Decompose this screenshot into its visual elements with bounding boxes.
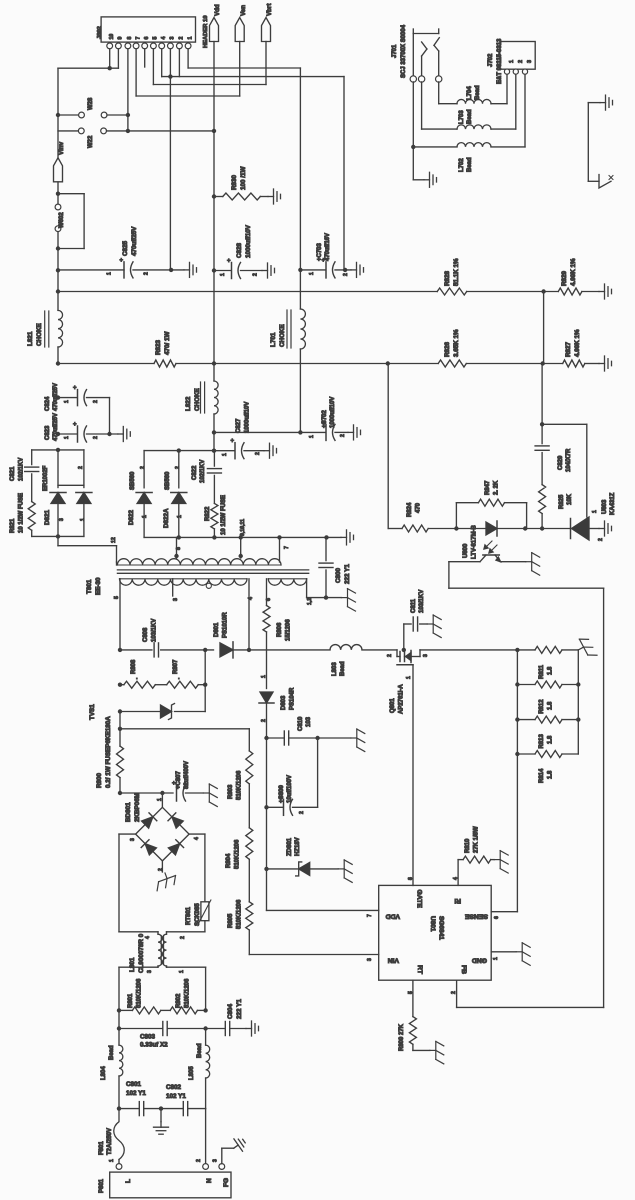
svg-text:L704: L704 (467, 86, 473, 100)
svg-text:2: 2 (180, 936, 186, 939)
svg-text:2: 2 (175, 466, 181, 469)
optocoupler U800 LTV-817M-B LED (486, 522, 497, 535)
svg-text:SB560: SB560 (130, 471, 136, 490)
svg-text:2: 2 (93, 436, 99, 439)
resistor R814 1.8 (515, 752, 519, 756)
svg-text:C811: C811 (411, 598, 417, 613)
svg-text:2. 2K: 2. 2K (494, 480, 500, 495)
svg-text:9,10,11: 9,10,11 (240, 519, 246, 536)
snubber C822 102/1KV + R822 fuse (213, 451, 215, 467)
wire pin6 stub (144, 49, 146, 67)
wire J701 ground drop (412, 147, 414, 180)
bead L704 (457, 99, 491, 103)
svg-text:Bead: Bead (109, 1045, 115, 1060)
capacitor C829 104/X7R (535, 445, 549, 447)
svg-text:1: 1 (222, 453, 228, 456)
wire J701 pin3 to L704 (438, 82, 440, 104)
svg-text:C822: C822 (192, 465, 198, 480)
svg-text:510K/1206: 510K/1206 (237, 770, 243, 800)
svg-text:R823: R823 (155, 339, 162, 355)
svg-text:1: 1 (64, 436, 70, 439)
svg-text:J702: J702 (488, 53, 494, 67)
chassis ground U801 GND (516, 943, 530, 966)
svg-text:HEADER 10: HEADER 10 (203, 15, 209, 48)
power flag Ven (235, 18, 244, 42)
svg-text:Vdd: Vdd (214, 4, 221, 16)
chassis ground bridge minus (161, 861, 163, 872)
ground C804 (246, 1021, 259, 1036)
svg-text:Ven: Ven (240, 5, 247, 16)
svg-text:103/1KV: 103/1KV (152, 619, 158, 642)
svg-text:1,2: 1,2 (307, 598, 313, 605)
resistors R808 R807 (118, 683, 122, 687)
inductor L821 CHOKE (58, 310, 63, 347)
T801 pin 3 stub (172, 579, 174, 596)
wire Vdd bus (56, 361, 60, 365)
svg-text:PS1010R: PS1010R (223, 612, 229, 638)
thermistor RT801 SCK085 (201, 902, 209, 921)
bead L804 (119, 1045, 123, 1076)
wire rail to W602 (57, 182, 59, 204)
bead L805 (205, 1029, 207, 1046)
chassis ground R809 (430, 1041, 444, 1064)
wire pin7 to Ven (135, 49, 137, 96)
svg-text:D803: D803 (281, 695, 287, 710)
T801 core (117, 569, 308, 571)
capacitor C801 102 Y1 (117, 1106, 121, 1110)
power flag Vlnv (54, 158, 63, 182)
svg-text:2: 2 (93, 400, 99, 403)
wire VDD feed (266, 869, 268, 911)
wire R824 drop (387, 364, 389, 529)
svg-text:CL900078R 0: CL900078R 0 (138, 933, 145, 973)
svg-text:T801: T801 (86, 579, 93, 594)
svg-text:470uf/25V: 470uf/25V (131, 226, 138, 256)
svg-text:VIN: VIN (388, 957, 399, 964)
svg-text:R813: R813 (539, 733, 545, 748)
svg-text:PS104R: PS104R (290, 687, 296, 710)
T801 pin 8 tap (176, 537, 178, 558)
svg-text:+: + (227, 259, 231, 265)
svg-text:Bead: Bead (475, 85, 481, 100)
wire bridge AC right to RT801 (189, 833, 205, 835)
ground for C823/C824 (118, 427, 131, 442)
svg-text:R806: R806 (277, 622, 283, 637)
svg-text:L822: L822 (185, 396, 192, 411)
ground at Vdd bus end (599, 356, 612, 371)
ground at bus end (599, 284, 612, 299)
svg-text:U801: U801 (429, 916, 436, 932)
capacitor C823 470uf/25V (56, 432, 60, 436)
svg-text:0.2/ 1W FUSEP6KE180A: 0.2/ 1W FUSEP6KE180A (105, 716, 112, 788)
wire D821 to T801 pin12 (57, 536, 59, 545)
svg-text:R804: R804 (226, 853, 232, 868)
svg-text:2: 2 (387, 654, 393, 657)
svg-text:10K: 10K (567, 493, 573, 505)
svg-text:C824: C824 (45, 396, 51, 411)
svg-text:2: 2 (196, 1159, 202, 1162)
svg-text:4.99K 1%: 4.99K 1% (574, 329, 581, 357)
svg-text:510K/1206: 510K/1206 (185, 978, 191, 1008)
wire N line (205, 1109, 207, 1164)
svg-text:4: 4 (145, 936, 151, 939)
svg-text:C804: C804 (227, 1003, 234, 1019)
svg-text:RT: RT (416, 965, 423, 975)
svg-text:1: 1 (187, 37, 193, 40)
svg-text:1: 1 (107, 272, 113, 275)
svg-text:R825: R825 (559, 494, 565, 509)
svg-text:R800: R800 (96, 772, 103, 788)
ground secondary return (341, 530, 354, 545)
svg-text:1000uf/10V: 1000uf/10V (245, 224, 252, 258)
svg-text:N: N (206, 1178, 213, 1183)
svg-text:D822A: D822A (163, 508, 170, 528)
capacitor C808 103/1KV (118, 648, 122, 652)
svg-text:3: 3 (130, 838, 136, 841)
svg-text:L803: L803 (332, 662, 338, 676)
wire FB loop (448, 562, 450, 589)
svg-text:ZD801: ZD801 (287, 837, 293, 856)
wire drain row (247, 648, 251, 652)
svg-text:D801: D801 (214, 622, 220, 637)
bridge rectifier BD801 2KBP06M (161, 793, 163, 808)
resistor R804 510K/1206 (248, 784, 250, 828)
svg-text:6: 6 (144, 37, 150, 40)
svg-text:470/ 1W: 470/ 1W (164, 331, 171, 355)
transformer T801 EE-30 secondary winding (117, 559, 281, 565)
IC U801 SG6841 (379, 885, 492, 980)
resistor R813 1.8 (515, 717, 519, 721)
svg-text:2: 2 (518, 60, 524, 63)
svg-text:1: 1 (142, 515, 148, 518)
svg-text:C825: C825 (122, 240, 129, 256)
svg-text:R821: R821 (10, 518, 16, 533)
opto light arrows (484, 541, 492, 549)
wire output bus (Vlnv) (56, 289, 60, 293)
svg-text:+: + (231, 439, 235, 445)
chassis ground opto emitter (526, 553, 540, 576)
svg-text:1: 1 (309, 272, 315, 275)
svg-text:510K/1206: 510K/1206 (137, 978, 143, 1008)
svg-text:Q801: Q801 (390, 698, 396, 713)
svg-text:8: 8 (408, 877, 414, 880)
wire J802 pin2/gnd drop (343, 77, 345, 270)
svg-text:C829: C829 (558, 455, 564, 470)
svg-text:P801: P801 (99, 1178, 105, 1193)
common mode choke L801 CL900078R0 (119, 931, 158, 933)
svg-text:EE-30: EE-30 (95, 577, 102, 595)
svg-text:1.8: 1.8 (548, 735, 554, 744)
chassis ground C810 (351, 729, 365, 752)
ground U803 (599, 521, 612, 536)
resistor R829 4.99K 1% (558, 288, 582, 295)
connector P801 (116, 1164, 122, 1170)
TVS1 transient suppressor (118, 709, 122, 713)
capacitor C807 82uf/400V (118, 791, 122, 795)
svg-text:8: 8 (127, 37, 133, 40)
diode D803 PS104R (260, 692, 273, 703)
svg-text:1: 1 (406, 676, 412, 679)
dual schottky D822/D822A SB560 (177, 448, 181, 452)
svg-text:7: 7 (135, 37, 141, 40)
svg-text:3: 3 (367, 958, 373, 961)
svg-text:5: 5 (153, 37, 159, 40)
ground for C703 (351, 262, 364, 277)
U801 pin 4 RI to R810 (457, 860, 459, 886)
svg-text:1: 1 (177, 515, 183, 518)
svg-text:82uf/400V: 82uf/400V (184, 761, 190, 789)
svg-text:KA431Z: KA431Z (610, 492, 616, 515)
svg-text:W28: W28 (88, 97, 94, 110)
svg-text:2: 2 (261, 719, 267, 722)
svg-text:SG6841: SG6841 (438, 916, 445, 940)
ground for C702 (348, 425, 361, 440)
svg-text:U800: U800 (463, 543, 469, 558)
svg-text:1: 1 (309, 435, 315, 438)
svg-text:R814: R814 (539, 768, 545, 783)
svg-text:SENSE: SENSE (464, 913, 488, 920)
wire pin1 row (187, 49, 189, 68)
wire bus link (543, 292, 545, 364)
svg-text:4: 4 (194, 837, 200, 840)
svg-text:CHOKE: CHOKE (279, 324, 286, 347)
wire pin5 to Vbrt (152, 49, 154, 85)
svg-text:SCK085: SCK085 (195, 903, 201, 926)
svg-text:470uf/25V: 470uf/25V (53, 413, 59, 441)
wire Vlnv rail top (57, 68, 59, 158)
svg-text:510K/1206: 510K/1206 (237, 899, 243, 929)
svg-text:1.8: 1.8 (548, 770, 554, 779)
svg-text:3: 3 (527, 60, 533, 63)
svg-text:SB560: SB560 (165, 471, 171, 490)
svg-text:1: 1 (220, 273, 226, 276)
svg-text:L: L (125, 1179, 132, 1183)
wire pin3 drop to gnd row (169, 49, 171, 270)
svg-text:+: + (120, 258, 124, 264)
U801 pin 5 RT / R809 27K (412, 980, 414, 1016)
svg-text:102/1KV: 102/1KV (19, 458, 25, 481)
snubber C821 102/1KV + R821 fuse (32, 449, 58, 451)
svg-text:100 /1W: 100 /1W (240, 166, 247, 190)
resistor R823 470/1W (154, 360, 176, 367)
resistor R806 15/1206 (263, 606, 270, 633)
svg-text:TVS1: TVS1 (89, 704, 96, 720)
svg-text:2: 2 (179, 37, 185, 40)
wire J701 pin1 to L702 (412, 82, 414, 147)
svg-text:5: 5 (114, 596, 120, 599)
svg-text:2: 2 (343, 273, 349, 276)
wire Vdd rail (213, 42, 215, 364)
capacitor C800 222 Y1 (325, 537, 327, 560)
svg-text:R802: R802 (176, 993, 182, 1008)
svg-text:SCJ 33700X S0004: SCJ 33700X S0004 (401, 24, 407, 78)
svg-text:2: 2 (158, 868, 164, 871)
svg-text:R824: R824 (407, 502, 413, 517)
optocoupler U800 phototransistor (483, 554, 499, 556)
svg-text:L703: L703 (459, 110, 465, 124)
wire aux return row (307, 597, 342, 599)
capacitor C828 1000uf/10V (212, 268, 216, 272)
svg-text:51.1K 1%: 51.1K 1% (453, 258, 460, 286)
wire pin2 (178, 49, 180, 77)
svg-text:1: 1 (261, 675, 267, 678)
chassis bracket near J702 (587, 103, 589, 182)
svg-text:+: + (73, 386, 77, 392)
T801 pins 9,10,11 tap (240, 537, 242, 558)
svg-text:R830: R830 (231, 174, 238, 190)
svg-text:Bead: Bead (467, 109, 473, 124)
ground for C825 (184, 262, 197, 277)
wire FG to ground (221, 1148, 223, 1163)
svg-text:510K/1206: 510K/1206 (235, 839, 241, 869)
svg-text:470uf/16V: 470uf/16V (325, 233, 331, 261)
chassis ground bank (574, 635, 597, 661)
wire L801 left to rows (118, 1010, 120, 1045)
svg-text:L804: L804 (101, 1066, 107, 1080)
wire R825/C829 branch (540, 526, 544, 530)
resistor R800 0.2/1W fuse (117, 746, 124, 778)
svg-text:C800: C800 (335, 567, 342, 583)
svg-text:2: 2 (451, 991, 457, 994)
svg-text:C823: C823 (45, 425, 51, 440)
svg-text:2KBP06M: 2KBP06M (134, 793, 141, 822)
svg-text:3: 3 (59, 518, 65, 521)
resistor R847 2.2K bypass (454, 526, 458, 530)
svg-text:2: 2 (144, 272, 150, 275)
svg-text:R826: R826 (444, 341, 451, 357)
svg-text:J802: J802 (97, 26, 103, 39)
svg-text:+: + (73, 422, 77, 428)
svg-text:R801: R801 (128, 993, 134, 1008)
svg-text:103/1KV: 103/1KV (419, 590, 425, 613)
svg-text:1.8: 1.8 (548, 666, 554, 675)
svg-text:L702: L702 (459, 158, 465, 172)
svg-text:Vbrt: Vbrt (266, 4, 273, 16)
svg-text:6: 6 (494, 916, 500, 919)
svg-text:Bead: Bead (340, 661, 346, 676)
zener ZD801 HZ18V (264, 867, 268, 871)
svg-text:222 Y1: 222 Y1 (344, 564, 351, 584)
svg-text:3: 3 (423, 654, 429, 657)
svg-text:10 1/2W FUSE: 10 1/2W FUSE (221, 495, 227, 535)
svg-text:2: 2 (78, 466, 84, 469)
ground for C827 (264, 443, 277, 458)
fuse F801 T2A/250V (114, 1109, 125, 1160)
svg-text:6: 6 (266, 598, 272, 601)
svg-text:3: 3 (173, 598, 179, 601)
wire to VIN (248, 930, 250, 955)
svg-text:AP2761I-A: AP2761I-A (399, 684, 405, 714)
capacitor C825 470uf/25V (56, 268, 60, 272)
svg-text:L801: L801 (129, 957, 136, 972)
svg-text:C808: C808 (143, 627, 149, 642)
svg-text:R829: R829 (561, 270, 568, 286)
capacitor C804 222 Y1 (206, 1028, 226, 1030)
svg-text:L821: L821 (27, 331, 34, 346)
svg-text:R827: R827 (565, 341, 572, 357)
svg-text:104/X7R: 104/X7R (566, 448, 572, 472)
svg-text:+C807: +C807 (176, 770, 182, 789)
svg-text:R812: R812 (539, 699, 545, 714)
svg-text:+C703: +C703 (317, 242, 323, 261)
svg-text:4: 4 (453, 877, 459, 880)
svg-text:D821: D821 (44, 509, 51, 525)
bead L703 (457, 125, 491, 129)
wire secondary return row (144, 536, 326, 538)
svg-text:3: 3 (213, 1159, 219, 1162)
T801 pin 4 (248, 579, 250, 650)
svg-text:5: 5 (408, 991, 414, 994)
inductor L701 CHOKE (299, 68, 301, 309)
svg-text:C801: C801 (126, 1081, 142, 1088)
T801 primary winding (120, 579, 248, 585)
svg-text:C803: C803 (140, 1034, 156, 1041)
svg-text:9: 9 (118, 37, 124, 40)
svg-text:R808: R808 (131, 659, 137, 674)
resistor R805 510K/1206 (248, 859, 250, 902)
svg-text:ER1002F: ER1002F (43, 465, 49, 491)
capacitor C809 10uf/100V (264, 805, 268, 809)
connector J802 HEADER 10 (101, 17, 195, 42)
svg-text:J701: J701 (392, 44, 398, 58)
svg-text:1000uf/10V: 1000uf/10V (245, 402, 251, 433)
resistor R810 27K 1/8W (458, 859, 463, 861)
svg-text:15/1206: 15/1206 (286, 619, 292, 641)
capacitor C802 102 Y1 (159, 1106, 163, 1110)
svg-text:1: 1 (592, 510, 598, 513)
wire J701 pin2 to L703 (421, 82, 423, 129)
svg-text:10 1/2W FUSE: 10 1/2W FUSE (19, 493, 25, 533)
svg-text:4.99K 1%: 4.99K 1% (570, 258, 577, 286)
wire bank verticals (577, 650, 579, 754)
svg-text:27K 1/8W: 27K 1/8W (474, 826, 480, 853)
svg-text:R810: R810 (465, 838, 471, 853)
svg-text:C810: C810 (298, 716, 304, 731)
svg-text:2: 2 (340, 434, 346, 437)
T801 aux winding (268, 579, 306, 585)
wire pin8 long drop (127, 49, 129, 131)
svg-text:D822: D822 (128, 509, 135, 525)
capacitor C827 1000uf/10V (212, 449, 216, 453)
shunt regulator U803 KA431Z (570, 519, 572, 539)
svg-text:C827: C827 (236, 418, 242, 433)
bead L702 (457, 143, 491, 147)
svg-text:Vlnv: Vlnv (58, 141, 65, 155)
wire bridge AC left to L801 (119, 833, 136, 835)
svg-text:R822: R822 (205, 506, 211, 521)
svg-text:BD801: BD801 (125, 802, 132, 822)
wire pin4 gnd row (161, 49, 163, 77)
power flag Vdd (210, 18, 219, 42)
svg-text:10: 10 (109, 34, 115, 40)
svg-text:1.8: 1.8 (548, 701, 554, 710)
capacitor C810 103 (264, 736, 268, 740)
svg-text:102 Y1: 102 Y1 (166, 1093, 186, 1100)
resistor R830 100/1W (212, 194, 216, 198)
svg-text:Bead: Bead (467, 157, 473, 172)
capacitor C702 1000uf/10V (212, 430, 216, 434)
svg-text:Bead: Bead (197, 1043, 203, 1058)
T801 pin 5 (119, 579, 121, 650)
svg-text:102 Y1: 102 Y1 (126, 1090, 146, 1097)
svg-text:U803: U803 (602, 499, 608, 514)
svg-text:3.65K 1%: 3.65K 1% (453, 329, 460, 357)
svg-text:VDD: VDD (386, 913, 400, 920)
svg-text:GATE: GATE (416, 890, 423, 909)
resistors R801 R802 510K/1206 (117, 1008, 121, 1012)
svg-text:8: 8 (176, 547, 182, 550)
svg-text:3: 3 (147, 970, 153, 973)
